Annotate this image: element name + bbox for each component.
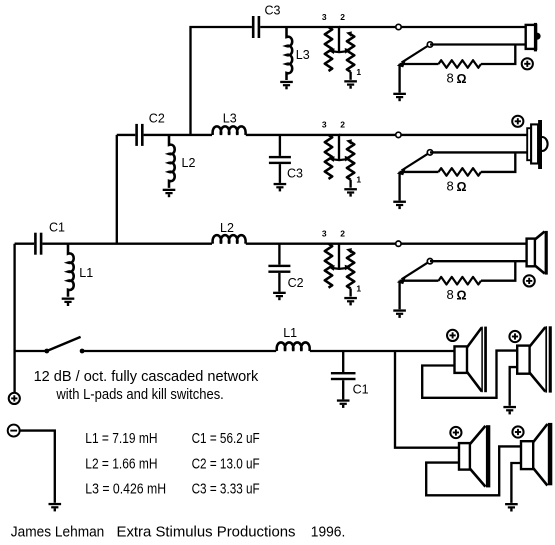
inductor L3 (shunt, tweeter) [287, 27, 293, 80]
svg-text:C3: C3 [265, 4, 281, 18]
wire (L-pad pin2 to woofer +) [339, 243, 527, 245]
wire (8 ohm right lead up row3) [481, 261, 515, 281]
inductor L2 (shunt, midrange) [169, 135, 175, 188]
wire (- terminal to ground) [20, 431, 55, 503]
svg-text:1: 1 [356, 175, 361, 185]
wire (8 ohm left lead row2) [400, 171, 439, 173]
polarity marker + (subwoofer C) [450, 427, 461, 438]
svg-text:8: 8 [447, 178, 454, 193]
speaker tweeter (horn driver) [526, 23, 541, 52]
capacitor C1 (shunt, subwoofer) [331, 351, 356, 399]
switch (kill, woofer) [397, 259, 433, 285]
terminal + input [9, 393, 20, 404]
svg-text:2: 2 [340, 120, 345, 130]
wire (switch to ground) [398, 172, 400, 201]
inductor L2 (series, woofer) [213, 235, 246, 244]
L-pad (tweeter) pin 2 wiper lead [328, 27, 350, 54]
resistor 8 ohm (midrange) [439, 168, 482, 176]
wire (subwoofer B - to ground) [510, 367, 518, 406]
L-pad (tweeter) shunt rheostat to pin 1 [346, 31, 354, 79]
wire (8 ohm left lead row3) [400, 280, 439, 282]
wire (C2 to L3 coil) [144, 134, 212, 136]
switch (kill, tweeter) [397, 42, 433, 68]
node (junction) [396, 241, 401, 246]
wire (L3 coil to L-pad row2) [246, 134, 340, 136]
svg-text:L1 = 7.19 mH: L1 = 7.19 mH [85, 431, 157, 447]
capacitor C2 (series, midrange) [135, 124, 143, 146]
speaker subwoofer C [459, 425, 490, 487]
wire (row2 start to C2) [117, 134, 136, 136]
svg-text:L3: L3 [223, 111, 237, 125]
wire (C3 to L-pad row1) [260, 26, 340, 28]
wire (switch to ground) [398, 64, 400, 93]
terminal - input [8, 425, 20, 437]
svg-text:C2: C2 [149, 111, 165, 125]
svg-text:3: 3 [322, 229, 327, 239]
ground [393, 309, 406, 318]
capacitor C1 (series, woofer) [34, 233, 42, 255]
node (junction) [396, 24, 401, 29]
ground [337, 399, 350, 408]
svg-text:3: 3 [322, 12, 327, 22]
svg-text:2: 2 [340, 12, 345, 22]
wire (switch to woofer -) [430, 260, 527, 262]
svg-text:L2: L2 [182, 156, 196, 170]
inductor L1 (series, subwoofer) [277, 342, 310, 351]
speaker subwoofer B [517, 326, 552, 392]
svg-text:3: 3 [322, 120, 327, 130]
L-pad (woofer) pin 2 wiper lead [328, 244, 350, 271]
polarity marker + (subwoofer D) [512, 426, 523, 437]
ground (L-pad pin 1) [344, 188, 357, 197]
wire (8 ohm right lead up to speaker line) [481, 45, 515, 65]
ground [62, 298, 75, 307]
ground (subwoofer B) [503, 406, 516, 415]
wire (L2 coil to L-pad row3) [246, 243, 340, 245]
svg-text:2: 2 [340, 229, 345, 239]
svg-text:L3: L3 [296, 48, 310, 62]
svg-text:L2: L2 [220, 221, 234, 235]
ground [393, 201, 406, 210]
wire (8 ohm right lead up row2) [481, 152, 515, 172]
capacitor C2 (shunt, woofer) [268, 244, 290, 292]
svg-text:Ω: Ω [457, 289, 467, 303]
svg-text:C1: C1 [49, 220, 65, 234]
L-pad (woofer) shunt rheostat to pin 1 [346, 248, 354, 296]
svg-text:C3: C3 [287, 167, 303, 181]
wire (switch to ground) [398, 281, 400, 310]
wire (switch to L1 coil) [82, 350, 276, 352]
svg-text:1: 1 [356, 284, 361, 294]
wire (L-pad pin2 to tweeter +) [339, 26, 527, 28]
inductor L1 (shunt, woofer) [68, 244, 74, 297]
L-pad (woofer) series rheostat, pin 3 [325, 244, 332, 288]
polarity marker + (woofer) [524, 275, 535, 286]
wire (L1 coil to subwoofer bank A) [310, 350, 455, 352]
polarity marker + (subwoofer B) [509, 331, 520, 342]
L-pad (midrange) shunt rheostat to pin 1 [346, 139, 354, 187]
switch (kill, subwoofer bus) [44, 337, 84, 354]
svg-text:1: 1 [356, 67, 361, 77]
resistor 8 ohm (woofer) [439, 277, 482, 285]
svg-text:with L-pads and kill switches.: with L-pads and kill switches. [56, 386, 224, 403]
capacitor C3 (shunt, midrange) [269, 135, 291, 183]
L-pad (midrange) series rheostat, pin 3 [325, 135, 332, 179]
wire (8 ohm left lead) [400, 63, 439, 65]
ground [273, 292, 286, 301]
ground (L-pad pin 1) [344, 297, 357, 306]
ground (input -) [49, 503, 62, 512]
switch (kill, midrange) [397, 150, 433, 176]
svg-text:C2: C2 [288, 276, 304, 290]
ground [274, 183, 287, 192]
polarity marker + (tweeter) [522, 58, 533, 69]
wire (row2 left riser down to row3) [116, 135, 118, 244]
node (junction) [396, 132, 401, 137]
L-pad (tweeter) series rheostat, pin 3 [325, 27, 332, 71]
ground [163, 189, 176, 198]
wire (row3 left riser down to + terminal) [13, 244, 15, 393]
ground (L-pad pin 1) [344, 80, 357, 89]
inductor L3 (series, midrange) [213, 126, 246, 135]
wire (row3 start to C1) [15, 243, 34, 245]
wire (bus from left riser to switch) [15, 350, 47, 352]
resistor 8 ohm (tweeter) [439, 60, 482, 68]
ground (subwoofer D) [505, 503, 518, 512]
speaker subwoofer D [521, 423, 552, 486]
polarity marker + (subwoofer A) [447, 330, 458, 341]
wire (switch to tweeter -) [430, 43, 527, 45]
wire (switch to midrange -) [430, 151, 528, 153]
svg-text:C2 = 13.0 uF: C2 = 13.0 uF [192, 456, 260, 472]
svg-text:L3 = 0.426 mH: L3 = 0.426 mH [85, 482, 166, 498]
svg-text:C1 = 56.2 uF: C1 = 56.2 uF [192, 431, 260, 447]
svg-text:8: 8 [447, 71, 454, 86]
svg-text:L1: L1 [283, 326, 297, 340]
wire (row1 main, riser top-left corner to C3) [191, 27, 252, 135]
L-pad (midrange) pin 2 wiper lead [328, 135, 350, 162]
wire (C1 to L2 coil) [42, 243, 212, 245]
capacitor C3 (series, tweeter) [252, 16, 260, 38]
svg-text:C1: C1 [353, 383, 369, 397]
svg-text:Ω: Ω [457, 180, 467, 194]
speaker midrange (dome) [527, 120, 547, 169]
svg-text:C3 = 3.33 uF: C3 = 3.33 uF [192, 482, 260, 498]
svg-text:James LehmanExtra Stimulus Pro: James LehmanExtra Stimulus Productions19… [11, 525, 346, 541]
svg-text:8: 8 [447, 287, 454, 302]
wire (subwoofer D - to ground) [511, 463, 521, 503]
svg-text:L2 = 1.66 mH: L2 = 1.66 mH [85, 456, 157, 472]
svg-text:L1: L1 [79, 266, 93, 280]
wire (L-pad pin2 to midrange +) [339, 134, 528, 136]
svg-text:Ω: Ω [457, 72, 467, 86]
wire (subwoofer A - to subwoofer B +) [422, 351, 517, 398]
ground [280, 81, 293, 90]
speaker woofer (cone) [527, 231, 548, 275]
ground [393, 93, 406, 102]
wire (riser to lower subwoofer bank) [395, 351, 459, 448]
polarity marker + (midrange) [512, 116, 523, 127]
speaker subwoofer A [455, 327, 487, 393]
svg-text:12 dB / oct. fully cascaded ne: 12 dB / oct. fully cascaded network [34, 368, 259, 385]
wire (subwoofer C - to subwoofer D +) [426, 446, 521, 495]
